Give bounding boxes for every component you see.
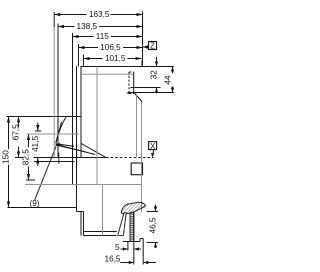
svg-text:82,5: 82,5 bbox=[22, 149, 31, 165]
svg-text:41,5: 41,5 bbox=[31, 135, 40, 151]
svg-text:X: X bbox=[150, 142, 156, 151]
svg-text:115: 115 bbox=[96, 32, 109, 41]
svg-text:138,5: 138,5 bbox=[77, 22, 98, 31]
svg-text:46,5: 46,5 bbox=[148, 217, 157, 233]
svg-text:106,5: 106,5 bbox=[100, 43, 121, 52]
svg-text:32: 32 bbox=[149, 70, 158, 80]
svg-text:101,5: 101,5 bbox=[105, 54, 126, 63]
svg-text:16,5: 16,5 bbox=[105, 255, 121, 264]
svg-text:5: 5 bbox=[115, 243, 120, 252]
svg-text:163,5: 163,5 bbox=[89, 10, 110, 19]
svg-text:Z: Z bbox=[150, 42, 155, 51]
svg-text:150: 150 bbox=[2, 150, 11, 164]
svg-text:67,5: 67,5 bbox=[12, 124, 21, 140]
svg-text:(9): (9) bbox=[29, 199, 39, 208]
svg-text:44: 44 bbox=[164, 75, 173, 85]
